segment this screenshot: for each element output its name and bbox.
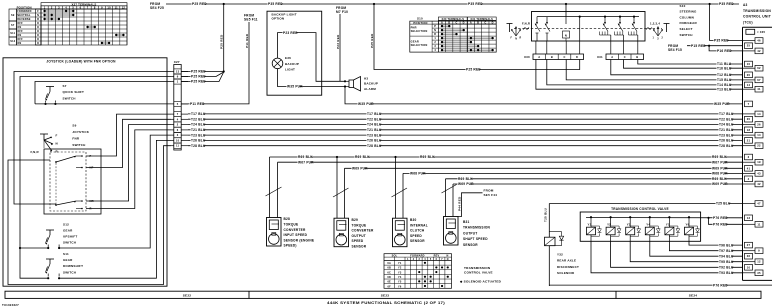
wire P25 RED X27 pin 13 [181,70,224,74]
svg-text:Y6: Y6 [686,222,690,226]
svg-text:P35 RED: P35 RED [468,2,483,6]
svg-text:14: 14 [747,83,751,87]
svg-text:T12 BLU: T12 BLU [717,73,732,77]
svg-text:T28 BLU: T28 BLU [191,144,206,148]
svg-text:SE4 F15: SE4 F15 [668,48,682,52]
svg-text:INPUT SPEED: INPUT SPEED [284,233,308,237]
svg-text:CONTROL VALVE: CONTROL VALVE [464,271,493,275]
wire P76 RED bottom return [549,283,772,287]
svg-text:20: 20 [747,117,751,121]
svg-text:Y1: Y1 [588,222,592,226]
svg-text:Y4: Y4 [646,222,650,226]
sensor B28 torque converter input speed sensor [266,157,282,246]
svg-text:SOLENOID: SOLENOID [557,271,575,275]
svg-text:JOYSTICK: JOYSTICK [72,130,89,134]
TCU pin 10 [745,61,753,67]
svg-text:SELECTION: SELECTION [411,29,428,33]
svg-text:F,N,R: F,N,R [522,22,530,26]
svg-text:CONTROL UNIT: CONTROL UNIT [743,15,771,19]
solenoid Y32 rear axle disconnect [545,237,556,286]
svg-text:REAR AXLE: REAR AXLE [557,259,576,263]
wire P25 RED / P35 RED top feed bus [166,2,739,6]
box JOYSTICK (LOADER) WITH FNR OPTION [3,58,167,286]
wire T16 BLU X31-B to TCU [624,60,743,71]
TCU pin 19 [743,159,764,165]
svg-text:13: 13 [176,70,180,74]
svg-text:GEAR: GEAR [63,258,73,262]
svg-text:N: N [446,255,448,258]
TCU pin 41 [745,166,753,172]
svg-text:TX1024627: TX1024627 [2,303,19,307]
svg-text:W69 PUR: W69 PUR [712,182,728,186]
diode across Y32 [549,232,563,246]
svg-text:N: N [56,141,58,145]
S10 gear contacts group [600,17,638,41]
solenoid Y4 [645,216,654,241]
wire W35 PUR alarm return to TCU [345,87,743,107]
wire T9x BLU solenoid Y4 return to TCU [650,241,743,256]
svg-text:S10: S10 [417,17,423,21]
svg-text:B31: B31 [463,220,470,224]
diode across Y5 [669,226,679,236]
solenoid Y3 [626,216,635,241]
svg-text:T21 BLU: T21 BLU [719,128,734,132]
svg-text:OFF: OFF [17,38,23,41]
svg-text:A3: A3 [743,3,748,7]
svg-text:S11: S11 [63,252,69,256]
svg-text:T26 BLU: T26 BLU [367,139,382,143]
svg-text:SELECT: SELECT [680,27,693,31]
wire S9 NF contact to X27 pin 4 [86,119,171,167]
wire P25 RED X27 pin 9 [181,72,224,79]
svg-text:7: 7 [748,102,750,106]
svg-text:25: 25 [747,44,751,48]
wire T25 BLU left drop [544,204,550,238]
svg-text:F: F [37,10,39,13]
svg-text:UPSHIFT: UPSHIFT [63,235,77,239]
svg-text:W35 PUR: W35 PUR [287,85,303,89]
svg-text:10: 10 [747,62,751,66]
junction dot feed to S10 switch [565,3,567,5]
wire T21 BLU [188,128,743,132]
svg-text:T17 BLU: T17 BLU [719,112,734,116]
svg-text:Y2: Y2 [607,222,611,226]
svg-text:22: 22 [757,144,761,148]
svg-text:PNR: PNR [411,26,417,30]
svg-text:1,2,3,4: 1,2,3,4 [650,22,660,26]
wire T9x BLU solenoid Y3 return to TCU [630,241,742,261]
svg-text:42: 42 [757,182,761,186]
wire T9x BLU solenoid Y6 return to TCU [689,241,743,245]
wire T17 BLU [188,112,743,116]
svg-text:18: 18 [747,128,751,132]
wire T22 BLU [188,117,743,121]
svg-text:CONVERTER: CONVERTER [284,228,306,232]
svg-text:19: 19 [757,160,761,164]
wire T23 BLU [188,133,743,137]
svg-text:6B: 6B [387,267,391,270]
svg-text:X30: X30 [524,55,530,59]
wire T9x BLU solenoid Y1 return to TCU [591,241,743,272]
junction dot P25 feed to X30 [373,3,375,5]
TCU pin 41 [743,86,764,92]
TCU pin 46 [743,38,764,44]
TCU pin 42 [743,181,764,187]
TCU pin 12 [743,259,764,265]
svg-text:C: C [624,55,626,59]
svg-text:P25 RED: P25 RED [191,80,206,84]
svg-text:SPEED: SPEED [352,239,364,243]
wire feed X27 pin 9 to S12/S11 [19,77,171,279]
junction dot P35 RED at TCU [709,3,711,5]
TCU pin 67 [743,77,764,83]
diode across Y4 [650,226,660,236]
svg-text:11: 11 [757,222,761,226]
svg-text:X27: X27 [174,60,180,64]
svg-text:TRANSMISSION: TRANSMISSION [464,266,491,270]
svg-text:T22 BLU: T22 BLU [719,117,734,121]
table S10 switch-position table (X30/X31 terminals) [410,17,496,53]
TCU pin 20 [745,116,753,122]
wire P23 RED lamp feed [278,31,346,82]
svg-text:SWITCH: SWITCH [63,241,76,245]
diode across Y6 [689,226,699,236]
harness bar SE23 [381,292,616,299]
svg-text:TORQUE: TORQUE [284,223,299,227]
wire T24 BLU [188,123,743,127]
TCU pin 20 [745,72,753,78]
svg-text:CONVERTER: CONVERTER [352,229,374,233]
switch S11 gear downshift symbol [46,259,61,279]
svg-text:W68 PUR: W68 PUR [410,172,426,176]
connector X31 strip [597,54,644,60]
svg-text:W35 PUR: W35 PUR [714,102,730,106]
wire T26 BLU [188,138,743,142]
svg-text:X31: X31 [597,55,603,59]
svg-text:GEAR: GEAR [63,229,73,233]
sensor B30 internal clutch speed sensor [392,157,408,247]
svg-text:SENSOR (ENGINE: SENSOR (ENGINE [284,238,315,242]
svg-text:GEAR: GEAR [411,40,419,44]
svg-text:T92 BLU: T92 BLU [719,265,734,269]
harness bar SE22 [5,291,761,299]
wire T28 BLU [188,144,743,148]
svg-text:Y5: Y5 [666,222,670,226]
box TRANSMISSION CONTROL VALVE [580,212,700,241]
svg-text:T21 BLU: T21 BLU [367,128,382,132]
svg-text:SWITCH: SWITCH [63,270,76,274]
svg-text:QUICK SHIFT: QUICK SHIFT [63,90,85,94]
svg-text:OUTPUT: OUTPUT [463,231,477,235]
svg-text:F: F [56,133,58,137]
svg-text:R69 BLK: R69 BLK [712,177,727,181]
svg-text:M7 F10: M7 F10 [336,10,348,14]
svg-text:P23 RED: P23 RED [283,31,298,35]
svg-text:NEUTRAL: NEUTRAL [17,14,31,17]
svg-text:3: 3 [748,155,750,159]
svg-text:SENSOR: SENSOR [410,239,425,243]
sensor B31 transmission output shaft speed sensor [442,179,459,245]
svg-text:FNR/GEAR: FNR/GEAR [680,21,698,25]
svg-text:W69 PUR: W69 PUR [712,167,728,171]
svg-text:W68 PUR: W68 PUR [712,172,728,176]
svg-text:S12: S12 [10,40,15,43]
wire P76 RED second pin branch [707,217,742,227]
svg-text:A: A [611,55,613,59]
svg-text:444K SYSTEM FUNCTIONAL SCHEMAT: 444K SYSTEM FUNCTIONAL SCHEMATIC (2 OF 1… [327,301,445,305]
TCU pin 10 [745,265,753,271]
diode across Y1 [591,226,601,236]
wire T14 BLU X30-B to TCU [547,60,743,88]
svg-text:P16 RED: P16 RED [717,49,732,53]
TCU pin 14 [743,132,764,138]
wire R69 BLK sensor common to TCU [270,155,743,159]
svg-text:6E: 6E [387,281,391,284]
table solenoid engagement chart [384,254,452,289]
wire T11 BLU X31-C to TCU [638,60,743,67]
svg-text:SWITCH: SWITCH [63,96,76,100]
svg-text:Y2: Y2 [398,267,402,270]
svg-text:SE22: SE22 [183,294,192,298]
svg-text:Y4: Y4 [398,276,402,279]
wire S12 to X27 pin 3 [59,135,171,248]
svg-text:11: 11 [176,144,180,148]
TCU pin 35 [743,270,764,276]
svg-text:CLUTCH: CLUTCH [410,229,425,233]
svg-text:× X35: × X35 [757,30,765,34]
TCU pin 43 [743,171,764,177]
labels T9x BLU returns [719,243,734,275]
svg-text:OPTION: OPTION [272,17,285,21]
svg-text:P23 RED: P23 RED [336,34,340,49]
label S10 STEERING COLUMN FNR/GEAR SELECT SWITCH [680,4,698,37]
svg-text:P15 RED: P15 RED [691,44,706,48]
svg-text:T23 BLU: T23 BLU [719,133,734,137]
svg-text:R69 BLK: R69 BLK [355,155,370,159]
svg-text:N: N [565,34,567,38]
svg-text:W67 PUR: W67 PUR [298,160,314,164]
svg-text:14: 14 [757,133,761,137]
wire X27 pin 11 common return loop [8,146,171,285]
svg-text:T97 BLU: T97 BLU [719,249,734,253]
svg-text:ALARM: ALARM [364,87,376,91]
wire S9 NR contact to X27 pin 2 [86,125,171,202]
svg-text:SENSOR: SENSOR [463,243,478,247]
svg-text:43: 43 [757,171,761,175]
lever symbol S10 gear side [646,22,670,41]
svg-text:◆ SOLENOID ACTUATED: ◆ SOLENOID ACTUATED [459,280,502,284]
svg-text:SHAFT SPEED: SHAFT SPEED [463,237,488,241]
svg-text:DISCONNECT: DISCONNECT [557,265,579,269]
TCU pin 25 [745,43,753,49]
svg-text:R: R [37,18,39,21]
svg-text:SE5 F44: SE5 F44 [484,193,498,197]
svg-text:T17 BLU: T17 BLU [191,112,206,116]
S10 neutral contact with N box [563,17,570,41]
svg-text:P35 RED: P35 RED [719,2,734,6]
diode across Y2 [611,226,621,236]
TCU pin 13 [745,215,753,221]
svg-text:P25 RED: P25 RED [191,70,206,74]
svg-text:TRANSMISSION CONTROL VALVE: TRANSMISSION CONTROL VALVE [611,207,669,211]
svg-text:S11: S11 [10,32,15,35]
svg-text:B28: B28 [284,217,291,221]
wire S7 feed from X27 pin 1 [35,82,171,104]
switch S9 upper wiper [55,155,83,168]
svg-text:O: O [37,22,39,25]
svg-text:REVERSE: REVERSE [17,18,31,21]
svg-text:T26 BLU: T26 BLU [191,139,206,143]
svg-text:STEERING: STEERING [680,10,698,14]
svg-text:TRANSMISSION: TRANSMISSION [463,226,491,230]
svg-text:35: 35 [757,271,761,275]
svg-text:O: O [37,38,39,41]
svg-text:T26 BLU: T26 BLU [719,139,734,143]
switch S9 joystick FNR lever symbol [40,133,59,153]
wire T25 BLU TCU to rear axle circuit [549,202,742,206]
svg-text:T17 BLU: T17 BLU [367,112,382,116]
wire S11 to X27 pin 10 [59,140,171,278]
svg-text:SWITCH: SWITCH [72,143,85,147]
svg-text:BACKUP: BACKUP [285,62,299,66]
svg-text:O: O [37,34,39,37]
wire S9 F contact to X27 pin 7 [86,114,171,156]
svg-text:P25 RED: P25 RED [370,33,374,48]
svg-text:O: O [37,42,39,45]
svg-text:SELECTION: SELECTION [411,43,428,47]
table switch-position table (S9/S7/S11/S12 vs X27 terminals) [9,2,127,45]
svg-text:SPEED): SPEED) [284,244,297,248]
svg-text:P76 RED: P76 RED [713,223,728,227]
svg-text:R69 BLK: R69 BLK [712,155,727,159]
wire P25 vertical from top feed [220,4,224,72]
solenoid Y6 [685,216,694,241]
wire S7 contacts to X27 pin 5 [35,103,171,105]
wire W68 PUR sensor B30 signal [403,171,743,175]
svg-text:Y5: Y5 [398,281,402,284]
svg-text:B: B [551,55,553,59]
dashed actuator line S10 [514,28,662,30]
svg-text:ON: ON [17,26,21,29]
wire T13 BLU X30-A to TCU [536,60,743,92]
S10 FNR contacts [535,17,550,41]
svg-text:S7: S7 [11,24,15,27]
svg-text:T16 BLU: T16 BLU [717,66,732,70]
svg-text:T23 BLU: T23 BLU [191,133,206,137]
alarm H3 backup alarm speaker [344,77,361,92]
wire P15 RED to TCU [687,44,743,48]
wire feed X27 pin 13 to S9 lower wiper [14,72,171,205]
svg-text:41: 41 [757,87,761,91]
svg-text:B30: B30 [410,218,417,222]
wire W67 PUR sensor B28 signal [278,160,743,164]
svg-text:FORWARD: FORWARD [17,10,31,13]
svg-text:13: 13 [747,216,751,220]
junction dot P25 at X27 [223,70,225,72]
svg-text:S9: S9 [11,14,15,17]
svg-text:REV: REV [434,255,440,258]
svg-text:H3: H3 [364,76,368,80]
junction dot P25 feed to X27 [223,3,225,5]
svg-text:FORWARD: FORWARD [410,255,424,258]
svg-text:SE24: SE24 [689,294,698,298]
svg-text:N: N [515,39,517,41]
TCU pin 7 [745,101,753,107]
svg-text:T28 BLU: T28 BLU [719,144,734,148]
svg-text:P11 RED: P11 RED [190,102,205,106]
svg-text:O: O [37,26,39,29]
svg-text:P25 RED: P25 RED [191,75,206,79]
svg-text:SE23: SE23 [381,294,390,298]
svg-text:T15 BLU: T15 BLU [717,78,732,82]
svg-text:P35 RED: P35 RED [714,39,729,43]
wire P25 RED X27 pin 1 [181,72,224,84]
svg-text:F,N,R: F,N,R [31,150,40,154]
svg-text:62: 62 [757,66,761,70]
svg-text:67: 67 [757,78,761,82]
svg-text:SE5 F11: SE5 F11 [244,18,258,22]
svg-text:W69 PUR: W69 PUR [352,167,368,171]
TCU pin 36 [745,253,753,259]
svg-text:O: O [37,30,39,33]
svg-text:P44 RED: P44 RED [457,196,461,211]
svg-text:Y1: Y1 [398,262,402,265]
table contact dots [45,10,74,12]
wire T12 BLU X31-A to TCU [611,60,743,78]
svg-text:JOYSTICK (LOADER) WITH FNR OPT: JOYSTICK (LOADER) WITH FNR OPTION [46,59,116,63]
TCU pin 47 [743,201,764,207]
wire P16 RED branch to TCU [709,46,742,53]
connector X27 [171,60,188,150]
svg-text:OUTPUT: OUTPUT [352,234,366,238]
wire T9x BLU solenoid Y2 return to TCU [611,241,743,267]
svg-text:T24 BLU: T24 BLU [719,123,734,127]
svg-text:27: 27 [747,243,751,247]
TCU pin 26 [743,122,764,128]
wire P11 RED from fuse F11 to X27 pin 5 [181,22,249,106]
switch S12 gear upshift symbol [46,230,61,249]
sensor B29 torque converter output speed sensor [333,157,349,247]
table S10 contact dots [441,25,494,51]
svg-text:Y32: Y32 [557,252,563,256]
svg-text:POSITION: POSITION [413,21,427,25]
svg-text:B29: B29 [352,218,359,222]
wire P25 RED feed to X30-D [370,4,580,72]
svg-text:BACKUP: BACKUP [364,82,378,86]
wire drop to S10 N contact [565,4,567,17]
svg-text:P25 RED: P25 RED [192,2,207,6]
svg-text:T95 BLU: T95 BLU [719,260,734,264]
TCU pin 14 [745,82,753,88]
svg-text:W67 PUR: W67 PUR [712,160,728,164]
TCU pin 42 [743,48,764,54]
svg-text:TORQUE: TORQUE [352,223,367,227]
mechanical link dashed S9 [55,163,57,204]
svg-text:Y3: Y3 [627,222,631,226]
svg-text:P25 RED: P25 RED [220,34,224,49]
TCU pin 11 [743,222,764,228]
svg-text:P11 RED: P11 RED [245,33,249,48]
svg-text:DOWNSHIFT: DOWNSHIFT [63,264,83,268]
svg-text:C: C [563,55,565,59]
wire S9 R contact to X27 pin 6 [86,130,171,209]
wire P23 RED from fuse F10 to alarm [336,14,346,82]
TCU pin 14 [743,111,764,117]
svg-text:INTERNAL: INTERNAL [410,223,428,227]
svg-text:P: P [434,25,436,28]
svg-text:ON: ON [17,34,21,37]
svg-text:6F: 6F [388,285,392,288]
